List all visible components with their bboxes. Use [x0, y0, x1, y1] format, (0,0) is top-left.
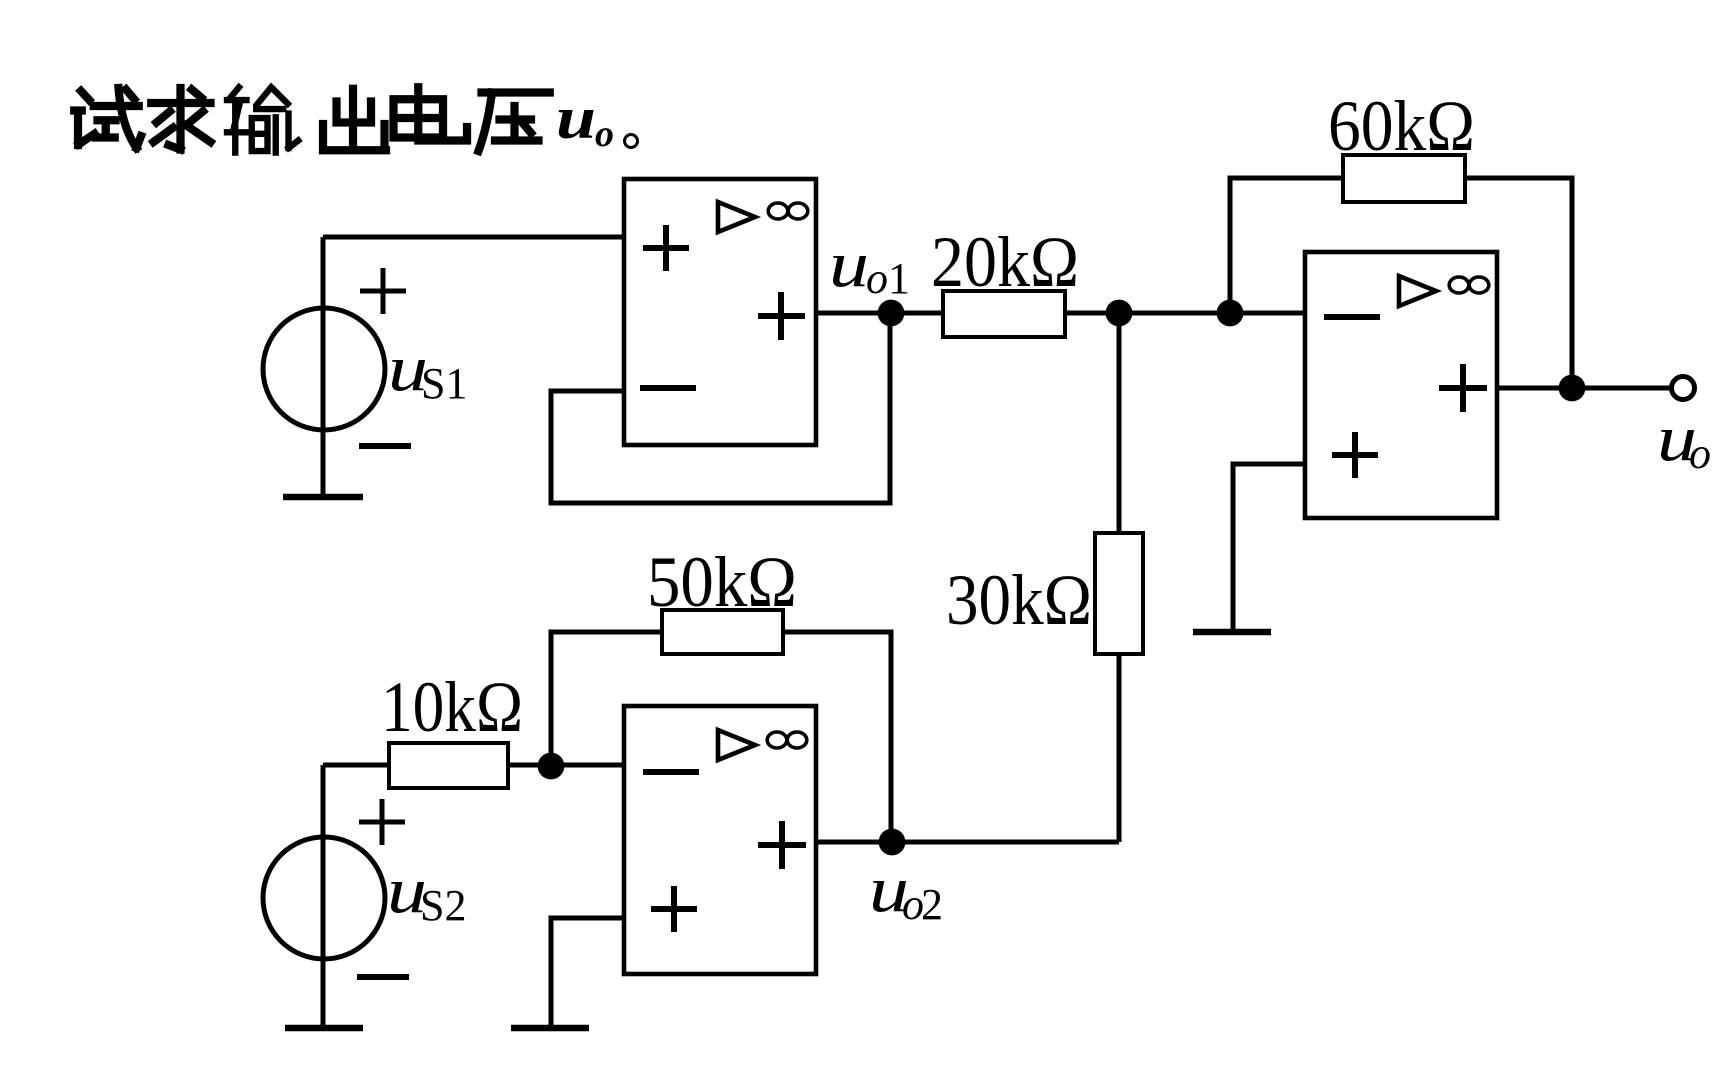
wire U1 feedback from output node A to inverting input [551, 314, 890, 503]
wire uS1 vertical branch to ground [321, 237, 326, 497]
U3 inverting input minus mark [1324, 314, 1380, 320]
U1 output plus mark [758, 292, 805, 340]
wire U2 noninverting input to ground [551, 918, 624, 1028]
wire uS2 vertical branch to ground [321, 765, 326, 1028]
wire 50k left side down to node D [551, 632, 662, 766]
U2 amplifier triangle symbol [718, 730, 755, 760]
U2 output plus mark [758, 821, 806, 869]
svg-text:10kΩ: 10kΩ [381, 667, 523, 747]
node C junction U3 inverting input [1217, 300, 1244, 327]
node label uo [1657, 402, 1711, 478]
svg-text:u: u [829, 228, 869, 301]
svg-text:20kΩ: 20kΩ [931, 222, 1079, 302]
voltage source uS2 [263, 799, 466, 977]
wire 60k feedback right side to output node F [1465, 178, 1572, 388]
op-amp U2 (inverting amplifier) [624, 706, 816, 974]
node B junction 20k/30k [1106, 300, 1133, 327]
output terminal uo open circle [1672, 377, 1695, 400]
op-amp U3 (summing inverting amplifier) [1305, 252, 1497, 518]
ground for source uS1 [283, 494, 363, 501]
U3 infinity gain symbol [1449, 277, 1469, 293]
voltage source uS1 [263, 268, 467, 446]
wire 50k right side down to node E [783, 632, 891, 842]
U1 inverting input minus mark [640, 385, 696, 391]
wire 10k resistor to U2 inverting input [508, 763, 624, 768]
wire U1 output to 20k resistor, net uo1 [816, 311, 943, 316]
wire uS2 plus terminal to 10k resistor [323, 763, 389, 768]
U3 noninverting input plus mark [1332, 432, 1378, 478]
svg-text:30kΩ: 30kΩ [946, 560, 1092, 640]
resistor R4 60k (U3 feedback) [1328, 86, 1475, 202]
svg-text:50kΩ: 50kΩ [647, 542, 797, 622]
svg-text:S2: S2 [420, 881, 466, 930]
U3 output plus mark [1439, 364, 1487, 412]
svg-text:60kΩ: 60kΩ [1328, 86, 1475, 166]
ground for U3 noninverting input [1193, 629, 1271, 636]
wire U2 output to 30k bottom, net uo2 [816, 840, 1119, 845]
node label uo1 [829, 228, 910, 303]
wire U3 output to terminal uo [1497, 386, 1670, 391]
svg-text:u: u [556, 85, 596, 151]
svg-text:o: o [866, 254, 888, 303]
wire U3 noninverting input to ground [1233, 464, 1305, 632]
op-amp U1 (voltage follower) [624, 179, 816, 445]
ground for source uS2 [285, 1025, 363, 1032]
U1 infinity gain symbol [768, 203, 788, 219]
svg-text:2: 2 [921, 880, 943, 929]
uS1 plus polarity mark [360, 268, 406, 314]
title text: 试求输出电压 (hand-drawn glyphs) [74, 87, 550, 152]
U2 infinity gain symbol [767, 732, 787, 748]
resistor R3 20k (uo1 to summing node) [931, 222, 1079, 337]
node D junction 10k/50k [538, 753, 565, 780]
wire node B down to 30k resistor top [1117, 313, 1122, 533]
U3 amplifier triangle symbol [1399, 276, 1436, 306]
resistor R1 10k (uS2 input) [381, 667, 523, 788]
U2 noninverting input plus mark [651, 886, 697, 932]
U2 inverting input minus mark [643, 769, 699, 775]
node F junction output [1559, 375, 1586, 402]
resistor R2 50k (U2 feedback) [647, 542, 797, 654]
resistor R5 30k vertical (uo2 to summing node) [946, 533, 1143, 654]
svg-text:o: o [595, 113, 614, 155]
node A junction uo1 [878, 300, 905, 327]
svg-text:1: 1 [888, 254, 910, 303]
node E junction uo2 [879, 829, 906, 856]
title math label uo [556, 85, 638, 155]
svg-text:o: o [1689, 429, 1711, 478]
wire 20k resistor to U3 inverting input [1065, 311, 1305, 316]
ground for U2 noninverting input [511, 1025, 589, 1032]
uS1 minus polarity mark [359, 443, 411, 449]
wire 30k resistor bottom down to uo2 net [1117, 654, 1122, 842]
wire 60k feedback left side to node C [1230, 178, 1343, 313]
U1 noninverting input plus mark [643, 225, 689, 271]
uS2 plus polarity mark [359, 799, 405, 845]
U1 amplifier triangle symbol [718, 202, 755, 232]
svg-text:S1: S1 [421, 359, 467, 408]
wire uS1 plus terminal to U1 noninverting input [323, 235, 624, 240]
uS2 minus polarity mark [357, 974, 409, 980]
node label uo2 [869, 853, 943, 929]
